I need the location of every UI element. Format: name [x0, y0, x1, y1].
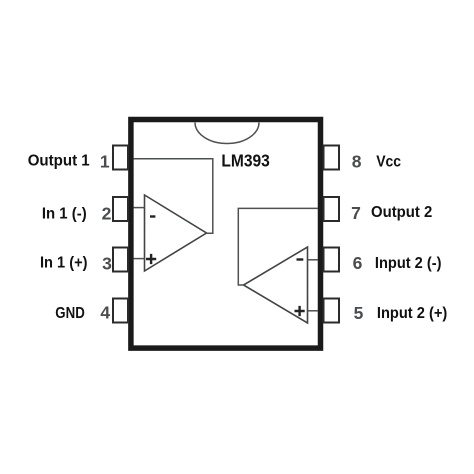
svg-text:8: 8	[352, 152, 362, 172]
IC body U1 (LM393 DIP-8 package outline)	[131, 120, 321, 349]
pin 3 pad	[113, 248, 128, 272]
svg-text:GND: GND	[55, 305, 85, 322]
pin 7 pad	[324, 197, 340, 221]
pin 8 pad	[324, 146, 340, 170]
wire pin5 to A2 non-inverting input	[308, 310, 319, 312]
svg-text:In 1 (+): In 1 (+)	[40, 255, 88, 272]
A1 non-inverting input marker +	[146, 254, 156, 264]
A2 inverting input marker -	[297, 258, 304, 260]
wire pin2 to A1 inverting input	[134, 207, 145, 209]
svg-text:3: 3	[102, 253, 112, 273]
svg-text:1: 1	[100, 152, 110, 172]
A2 non-inverting input marker +	[295, 306, 305, 316]
wire pin6 to A2 inverting input	[308, 259, 319, 261]
pin 2 pad	[113, 197, 128, 221]
svg-text:In 1 (-): In 1 (-)	[42, 206, 87, 223]
wire pin7 to A2 output (feedback loop)	[238, 208, 318, 285]
svg-text:LM393: LM393	[221, 151, 269, 171]
svg-text:Vcc: Vcc	[376, 153, 401, 170]
op-amp A1 (comparator 1 triangle)	[145, 195, 207, 271]
svg-text:6: 6	[353, 253, 363, 273]
svg-text:Input 2 (-): Input 2 (-)	[375, 255, 442, 272]
op-amp A2 (comparator 2 triangle, mirrored)	[244, 247, 308, 323]
pin 1 pad	[113, 146, 128, 170]
notch (pin-1 index semicircle)	[195, 123, 259, 144]
pin 4 pad	[113, 299, 128, 323]
svg-text:7: 7	[351, 203, 361, 223]
pin 6 pad	[324, 248, 340, 272]
pin 5 pad	[324, 299, 340, 323]
svg-text:4: 4	[100, 302, 110, 322]
wire pin1 to A1 output (feedback loop)	[134, 159, 213, 234]
svg-text:Output 2: Output 2	[371, 204, 433, 221]
svg-text:2: 2	[102, 204, 112, 224]
A1 inverting input marker -	[150, 215, 155, 217]
svg-text:Input 2 (+): Input 2 (+)	[377, 305, 447, 322]
svg-text:Output 1: Output 1	[28, 153, 90, 170]
wire pin3 to A1 non-inverting input	[134, 258, 145, 260]
svg-text:5: 5	[354, 303, 364, 323]
